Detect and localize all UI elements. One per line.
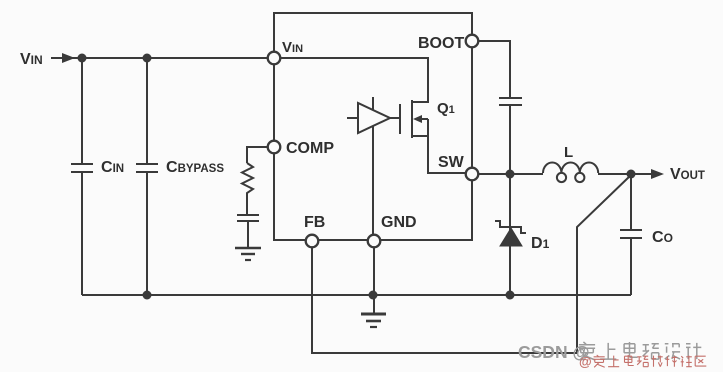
svg-text:GND: GND: [381, 214, 417, 231]
svg-text:VIN: VIN: [20, 51, 43, 68]
svg-text:COMP: COMP: [286, 140, 334, 157]
svg-text:SW: SW: [438, 154, 465, 171]
svg-text:CO: CO: [652, 229, 673, 246]
svg-text:L: L: [564, 144, 573, 161]
svg-text:BOOT: BOOT: [418, 35, 464, 52]
svg-text:FB: FB: [304, 214, 325, 231]
svg-text:D1: D1: [531, 235, 550, 252]
svg-text:@: @: [579, 354, 592, 369]
